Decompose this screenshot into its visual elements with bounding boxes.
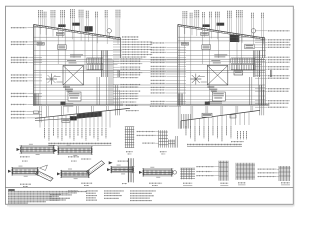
- mrk label above left wedge: [34, 111, 39, 114]
- beam section B1: [21, 147, 55, 152]
- left view right-side callout rows: [122, 39, 138, 40]
- notes col D: [86, 190, 98, 191]
- right wedge caption: [187, 144, 242, 145]
- section view top edge: [178, 25, 265, 39]
- marks below-left of X-box: [63, 86, 70, 87]
- lower columns: [96, 77, 98, 105]
- NOTE heading: [8, 189, 15, 191]
- rebar tick band: [87, 57, 104, 59]
- lower columns: [248, 77, 250, 105]
- X-braced box: [63, 66, 84, 86]
- B1 caption: [20, 156, 30, 157]
- beam B4 with rising slope: [61, 172, 89, 176]
- right edge double line: [269, 70, 271, 77]
- below-view columns: [115, 85, 117, 115]
- roof drop panel blobs: [58, 24, 65, 27]
- rebar cluster R2: [218, 161, 220, 181]
- left wall pier hatched: [178, 94, 180, 106]
- star burst detail: [46, 78, 57, 80]
- right wedge bar mark clusters: [185, 126, 188, 136]
- D3-D3b callout rows: [137, 131, 156, 132]
- D3b caption: [160, 151, 167, 152]
- left wall pier hatched: [33, 94, 35, 106]
- beam-column cross B5: [111, 168, 134, 172]
- right wedge trailing text cluster: [236, 131, 239, 140]
- R3 caption: [238, 182, 246, 183]
- title box lower: [212, 92, 225, 101]
- rebar cluster R3: [235, 163, 237, 180]
- right upper edge: [120, 38, 122, 58]
- left wedge bar mark clusters: [43, 128, 46, 139]
- notes col F: [130, 190, 156, 191]
- caption right of row1: [118, 161, 129, 162]
- notes col E: [104, 190, 124, 191]
- top dimension text clusters (left view): [37, 10, 40, 19]
- floor lines: [34, 36, 121, 38]
- D3 caption: [126, 151, 133, 152]
- page shadow bottom: [7, 205, 295, 206]
- marks below-left of X-box: [207, 86, 214, 87]
- B5 caption: [122, 182, 127, 185]
- circle marker: [107, 29, 111, 33]
- right wall verticals: [260, 58, 262, 105]
- column drops to right wedge: [190, 106, 192, 120]
- B3 caption: [20, 184, 31, 185]
- hatched column strip: [253, 51, 255, 78]
- column drops to left wedge: [46, 106, 48, 117]
- extra text box right (variant): [245, 44, 254, 49]
- detail ladder D3: [125, 126, 134, 128]
- detail grid R1: [180, 167, 195, 169]
- right view left-side callout rows: [151, 42, 165, 43]
- rebar tick band: [231, 57, 256, 59]
- right view right edge: [261, 38, 263, 58]
- B2 caption: [68, 156, 79, 157]
- beam B3 with sloped end: [12, 169, 38, 174]
- R1-R2 callout rows: [196, 166, 214, 167]
- hatched column strip: [101, 51, 103, 78]
- small stamp below title box: [205, 102, 210, 106]
- left slab wedge elevation: [35, 108, 130, 118]
- small label boxes: [181, 43, 188, 46]
- small label boxes: [37, 43, 44, 46]
- rebar cluster R4: [278, 166, 280, 181]
- R3-R4 callout rows: [258, 169, 277, 170]
- dim text above X-box: [70, 54, 83, 55]
- D7 caption: [149, 183, 162, 184]
- notes col C: [68, 190, 78, 191]
- long leader row middle: [150, 106, 169, 107]
- beam D7: [143, 170, 172, 175]
- top dimension text clusters (right view): [182, 11, 185, 19]
- continuous floor lines across middle gap: [120, 58, 178, 60]
- bottom edge: [34, 103, 124, 105]
- roof drop panel blobs: [203, 24, 210, 27]
- left wedge caption: [48, 143, 111, 144]
- right slab wedge elevation: [181, 110, 260, 121]
- circle marker: [251, 29, 255, 33]
- beam section B2: [58, 148, 92, 153]
- caption mid row1: [81, 159, 91, 160]
- section view top edge: [34, 25, 121, 39]
- wedge hatched band: [77, 112, 102, 119]
- R2 caption: [220, 183, 228, 184]
- column grid verticals: [183, 26, 185, 105]
- R4 caption: [281, 182, 290, 183]
- floor lines: [178, 36, 265, 38]
- D7 circle: [173, 171, 177, 175]
- star burst detail: [190, 78, 201, 80]
- notes small table1: [50, 194, 61, 195]
- small stamp below title box: [61, 102, 66, 106]
- title box lower: [68, 92, 81, 101]
- callout near left view top right: [122, 36, 139, 37]
- note paragraph rows: [8, 191, 87, 192]
- small dark label mid (variant): [234, 71, 243, 75]
- R1 caption: [183, 183, 192, 184]
- right wedge bar leaders: [185, 120, 187, 125]
- B4 caption: [81, 183, 92, 184]
- bottom edge: [178, 103, 269, 105]
- left edge wall: [33, 25, 35, 106]
- left wedge bar leaders: [39, 118, 41, 128]
- left margin callout rows: [11, 27, 27, 28]
- below-view columns: [259, 85, 261, 115]
- right edge double line: [117, 70, 119, 77]
- right view right-side callout rows: [268, 30, 290, 31]
- right upper edge: [264, 38, 266, 58]
- notes strip top line: [6, 187, 294, 189]
- dim text above X-box: [214, 54, 227, 55]
- right wall verticals: [108, 58, 110, 105]
- page shadow right: [294, 9, 295, 205]
- drawing sheet frame: [6, 6, 294, 204]
- left edge wall: [177, 25, 179, 106]
- detail ladder D3b stepped: [158, 130, 160, 147]
- column grid verticals: [39, 26, 41, 105]
- X-braced box: [207, 66, 228, 86]
